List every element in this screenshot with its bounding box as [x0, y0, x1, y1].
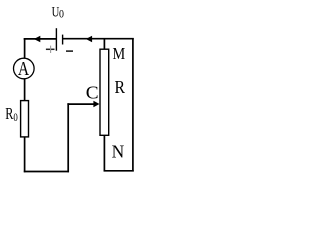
battery plus sign: [46, 46, 55, 53]
svg-text:0: 0: [13, 112, 17, 124]
svg-text:N: N: [112, 141, 125, 162]
current arrow (right of battery, pointing left): [86, 36, 92, 43]
wire top-right horizontal (battery - to right corner): [63, 38, 134, 40]
wire left vertical (top corner to ammeter): [24, 38, 26, 58]
svg-text:M: M: [113, 45, 126, 63]
wire right vertical: [132, 38, 134, 171]
svg-text:A: A: [18, 57, 29, 79]
battery positive plate (long): [55, 28, 57, 51]
wire stub M terminal (top wire to rheostat top): [103, 38, 105, 49]
svg-text:R: R: [115, 77, 126, 97]
svg-text:C: C: [86, 83, 99, 102]
wire wiper horizontal to contact C: [67, 103, 94, 105]
current arrow (left of battery, pointing left): [34, 36, 41, 43]
wire top-left horizontal (corner to battery +): [24, 38, 57, 40]
label R0: [5, 105, 18, 124]
svg-text:0: 0: [59, 8, 64, 21]
wire left vertical (R0 to bottom corner): [24, 137, 26, 172]
battery minus sign: [66, 50, 73, 52]
rheostat body R (slide resistor box): [100, 49, 109, 135]
wire bottom-left horizontal (to wiper branch): [24, 171, 69, 173]
battery negative plate (short): [62, 35, 64, 45]
ammeter A1 circle: [13, 58, 34, 79]
svg-text:U: U: [52, 4, 60, 20]
wire stub N terminal (rheostat bottom to bottom wire): [103, 135, 105, 171]
resistor R0 box: [21, 101, 29, 137]
wire left vertical (ammeter to R0): [24, 79, 26, 101]
wire wiper vertical riser: [67, 103, 69, 172]
svg-text:R: R: [5, 105, 13, 123]
wiper arrowhead at contact C (pointing right): [93, 101, 99, 107]
wire bottom-right horizontal: [104, 170, 134, 172]
label U0 (battery voltage): [52, 4, 65, 21]
